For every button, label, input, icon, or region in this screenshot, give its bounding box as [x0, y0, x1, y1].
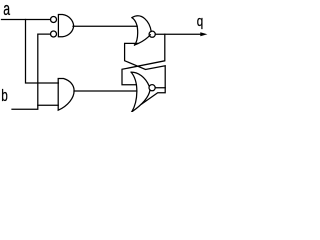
- wire G1 output to G3: [73, 25, 137, 27]
- svg-text:q: q: [197, 13, 204, 30]
- wire b riser to top gate: [38, 34, 51, 105]
- wire P3 q branch to G4 lower wing: [142, 88, 166, 104]
- inverter bubble on gate G1 input 2: [51, 31, 57, 37]
- wire a input: [2, 19, 51, 21]
- wire feedback P2 G4 output to G3 lower input: [125, 43, 166, 87]
- and gate G2: [58, 79, 74, 111]
- nor gate G3 body: [132, 16, 151, 45]
- svg-text:a: a: [3, 0, 10, 20]
- inverter bubble on gate G1 input 1: [51, 17, 57, 23]
- nor gate G4 output bubble: [149, 85, 155, 91]
- nor gate G4 body: [131, 72, 150, 112]
- wire a branch vertical: [26, 20, 59, 84]
- arrowhead q: [200, 32, 207, 36]
- wire G2 output to G4: [74, 90, 137, 92]
- svg-text:b: b: [1, 87, 8, 106]
- wire feedback P1 q to G4 upper input: [122, 34, 165, 84]
- and gate G1: [58, 15, 73, 37]
- wire b input: [12, 105, 58, 109]
- wire q output: [155, 33, 203, 35]
- nor gate G3 output bubble: [149, 31, 155, 37]
